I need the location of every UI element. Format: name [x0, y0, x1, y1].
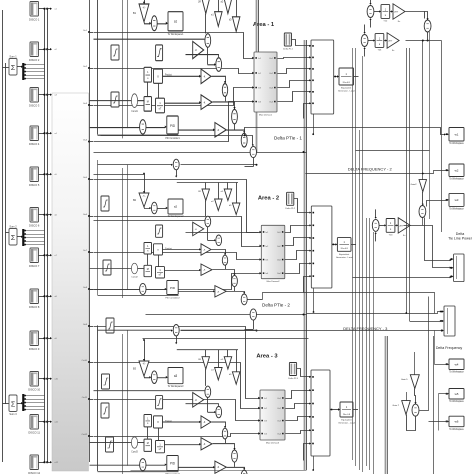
wire bus branch Ou12: [88, 435, 90, 437]
wire governor row Area-1: [163, 75, 201, 77]
wire cond link Area-1: [90, 100, 132, 102]
wire drop into cluster2 Area-3: [218, 350, 220, 368]
svg-text:Tie Line Power: Tie Line Power: [448, 237, 473, 241]
svg-text:2ΠT: 2ΠT: [399, 225, 404, 227]
subsystem group Area-3 internals: [90, 324, 258, 474]
source block DISCO 1: [30, 2, 39, 17]
wire Gt1 to sum right1: [212, 76, 226, 82]
svg-text:Ou3: Ou3: [277, 260, 281, 262]
svg-text:DELTA FREQUENCY - 2: DELTA FREQUENCY - 2: [348, 166, 393, 171]
svg-text:Ou2: Ou2: [269, 73, 273, 75]
wire pid row Area-1: [178, 129, 214, 131]
wire pid sum to controller: [146, 289, 165, 291]
sum block right2 Area-3: [232, 450, 238, 462]
wire plant 1 to equivalent generator: [334, 76, 338, 78]
wire Sum 2 output to fanout bar: [17, 236, 22, 238]
wire ACE sum to workspace: [157, 23, 166, 25]
svg-text:Ou1: Ou1: [269, 58, 273, 60]
wire into To Workspace9: [447, 420, 449, 422]
scope block To Workspace7 (w4): [449, 359, 464, 370]
bus band (tall gray gradient region): [52, 93, 89, 471]
gain block cluster1 Area-3: [202, 357, 210, 369]
wire pid sum to controller: [146, 464, 165, 466]
load block Delta PL2: [287, 192, 294, 205]
mux3 output port 1: [282, 397, 284, 399]
sum block tie T12: [367, 6, 374, 18]
PID controller block Area-2: [167, 281, 178, 295]
sum block Delta PTie-2: [250, 309, 256, 320]
svg-text:To Workspace: To Workspace: [449, 142, 464, 145]
wire cluster sum to right0 Area-1: [207, 47, 209, 64]
svg-text:To Workspace3: To Workspace3: [168, 385, 184, 388]
source block DISCO 3: [30, 88, 39, 103]
gain block cluster2 Area-1: [215, 12, 223, 27]
condition oval Cond2: [131, 263, 137, 274]
svg-text:1/R: 1/R: [198, 2, 201, 4]
svg-text:w1: w1: [455, 132, 459, 136]
svg-text:Ou11: Ou11: [82, 397, 88, 399]
wire tie chain T12: [374, 11, 380, 13]
svg-text:Equivalent: Equivalent: [341, 87, 352, 90]
limiter block under ACE Area-1: [156, 45, 163, 61]
svg-text:w4: w4: [455, 362, 459, 366]
sum block tie T13: [372, 219, 379, 231]
wire Delta PL3 to plant: [297, 369, 311, 377]
wire Delta PTie-1 band: [94, 152, 251, 154]
wire Gt2 to sum right2: [213, 444, 235, 449]
svg-text:Ou2: Ou2: [277, 408, 281, 410]
gain block Gt1 Area-3: [201, 416, 211, 428]
integrator block tie T12: [381, 5, 390, 19]
gain block Gt3 Area-3: [215, 461, 226, 473]
svg-text:To Workspace: To Workspace: [449, 428, 464, 431]
sum block right2 Area-1: [232, 109, 238, 123]
wire ACE sum to workspace: [157, 208, 166, 210]
wire tie T23 top input: [364, 25, 366, 34]
wire ws4 input: [435, 364, 449, 366]
svg-text:-K: -K: [203, 101, 205, 104]
svg-text:Ou10: Ou10: [82, 360, 88, 362]
wire tie3 out to tie mux port2: [404, 226, 451, 268]
wire tie chain T23: [368, 40, 374, 42]
gain block Gt3 Area-2: [215, 286, 226, 297]
wire DISCO 12 output: [39, 462, 45, 464]
svg-text:PID: PID: [170, 286, 176, 290]
svg-text:DISCO 1: DISCO 1: [29, 18, 40, 22]
limiter block under ACE Area-2: [156, 225, 163, 237]
svg-text:2ΠT: 2ΠT: [394, 12, 399, 14]
sum block bottom right: [412, 404, 419, 416]
svg-text:a2: a2: [174, 205, 178, 209]
transfer block governor Area-2: [144, 243, 152, 255]
source block DISCO 2: [30, 42, 39, 57]
wire far-left rail 1: [2, 10, 4, 462]
limiter block under ACE Area-3: [156, 396, 163, 409]
wire turbine row Area-3: [165, 444, 201, 446]
svg-text:Sum 1: Sum 1: [9, 55, 17, 58]
sum block tie combine top: [424, 20, 431, 32]
wire frame area2-3 boundary: [143, 338, 309, 340]
sum block cluster Area-3: [205, 386, 211, 397]
transfer block governor Area-1: [144, 67, 152, 82]
wire cluster sum to right0 Area-2: [207, 227, 209, 241]
sum block right1 Area-3: [222, 428, 227, 439]
svg-text:Delta: Delta: [456, 232, 464, 236]
wire sum right2 down: [234, 287, 236, 291]
svg-text:In2: In2: [258, 73, 261, 75]
mux2 output port 2: [282, 245, 284, 247]
svg-text:Cond3: Cond3: [131, 451, 138, 453]
wire into To Workspace6: [447, 199, 449, 201]
wire drop into cluster2 Area-2: [218, 183, 220, 200]
wire DISCO 6 output: [39, 214, 45, 216]
gain block Gt2 Area-2: [201, 264, 212, 275]
mux3 output port 3: [282, 420, 284, 422]
wire into B3: [144, 340, 146, 360]
PID controller block Area-1: [167, 116, 178, 134]
mux2 input port 4: [260, 272, 262, 274]
gain block Gt2 Area-3: [201, 438, 212, 450]
sum block tie input Area-2: [173, 159, 179, 170]
mux2 input port 2: [260, 245, 262, 247]
wire plant 2 frequency drop: [313, 288, 315, 312]
wire bus branch Ou5: [88, 178, 90, 180]
svg-text:In1: In1: [258, 58, 261, 60]
mux1 input port 3: [252, 86, 254, 88]
svg-text:Generator - Load: Generator - Load: [338, 422, 355, 425]
wire cluster top header Area-2: [177, 182, 238, 184]
wire PID1 output to PTie-1 sum: [101, 136, 253, 146]
wire bus branch Ou3: [88, 104, 90, 106]
gain block governor amp Area-2: [193, 222, 204, 236]
wire delta frequency 3 band: [181, 330, 443, 332]
mux1 output port 2: [274, 72, 276, 74]
transfer block reheat Area-2: [156, 267, 165, 278]
wire pid sum feed Area-1: [90, 127, 140, 129]
mux block Mux Demux2: [261, 225, 285, 278]
mux3 input port 3: [258, 419, 260, 421]
wire into B2: [144, 174, 146, 193]
wire feedback bottom Area-1: [98, 134, 179, 136]
wire generator 2 output: [351, 244, 356, 246]
summer block Sum 1: [9, 59, 17, 76]
wire drop into cluster1 Area-3: [205, 350, 207, 357]
svg-text:Generator - Load: Generator - Load: [336, 256, 353, 259]
source block DISCO 12: [30, 455, 39, 470]
wire feedback rail2 Area-3: [122, 334, 124, 474]
wire right0 feed Area-1: [186, 55, 219, 58]
sum block right0 Area-3: [216, 406, 222, 417]
gain block cluster1 Area-2: [202, 189, 210, 201]
wire tie mux port3 feed: [353, 277, 451, 279]
wire bottom into plant 3: [304, 444, 311, 461]
scope block To Workspace3 (ACE): [168, 367, 183, 383]
wire ws3 feed: [427, 201, 447, 207]
wire feedback rail2 Area-1: [122, 0, 124, 138]
mux2 input port 3: [260, 258, 262, 260]
mux1 input port 1: [252, 57, 254, 59]
svg-text:a1: a1: [174, 19, 177, 23]
sum block right3 Area-2: [241, 294, 247, 305]
gain block cluster1 Area-1: [202, 0, 210, 14]
scope block To Workspace9 (w6): [449, 416, 464, 427]
svg-text:-K-: -K-: [143, 6, 146, 9]
sum block right0 Area-1: [216, 58, 222, 72]
mux2 output port 1: [282, 231, 284, 233]
limiter block near bus: [106, 318, 114, 333]
summer block Sum 3: [9, 395, 17, 412]
svg-text:In3: In3: [266, 260, 269, 262]
gain block Gt1 Area-2: [201, 244, 211, 255]
svg-text:DISCO 8: DISCO 8: [29, 305, 40, 309]
wire DISCO 4 output: [39, 133, 45, 135]
svg-text:M: M: [147, 442, 149, 445]
mux1 output port 4: [274, 101, 276, 103]
mux block Delta Frequency output: [444, 306, 455, 336]
wires mux1 outputs to plant: [278, 58, 311, 59]
wire tie T23 bottom input: [364, 48, 366, 57]
svg-text:Delta PTie - 2: Delta PTie - 2: [262, 303, 290, 308]
wire sum right output to tie mux port1: [425, 218, 451, 261]
wire DISCO 11 output: [39, 421, 45, 423]
transfer block turbine Area-2: [144, 265, 152, 276]
wire drop into cluster1 Area-2: [205, 183, 207, 190]
wire into To Workspace8: [447, 393, 449, 395]
wire cluster sum drop: [205, 369, 207, 386]
wire governor row Area-2: [163, 249, 201, 251]
wire sum right2 down: [234, 124, 236, 130]
wire right rail bundle: [352, 48, 354, 460]
wire tie T12 out: [406, 12, 425, 19]
wire tie sum feed Area-3: [98, 329, 172, 331]
gain block cluster3 Area-3: [224, 357, 232, 369]
wire DISCO 9 output: [39, 338, 45, 340]
source block DISCO 9: [30, 331, 39, 346]
svg-text:DISCO 3: DISCO 3: [29, 104, 40, 108]
equivalent generator block Area 1: [339, 68, 354, 85]
wire bottom into plant 2: [304, 277, 311, 293]
wires mux3 outputs to plant: [286, 391, 311, 399]
limiter block near bus: [101, 403, 109, 418]
wire gov drop Area-3: [147, 427, 149, 439]
wires mux2 outputs to plant: [285, 226, 311, 233]
svg-text:aD: aD: [221, 2, 224, 4]
svg-text:DISCO 6: DISCO 6: [29, 224, 40, 228]
wire bus branch Ou6: [88, 215, 90, 217]
wire feedback rail1 Area-2: [97, 160, 99, 295]
wire tie sum out right Area-3: [181, 329, 257, 331]
gain block Gain5: [410, 375, 419, 389]
wire drop into cluster3 Area-3: [227, 350, 229, 357]
limiter block near bus: [106, 437, 114, 452]
condition oval Cond1: [131, 94, 137, 108]
wire B3 to ACE sum: [145, 377, 151, 378]
wire plant 2 to equivalent generator: [332, 244, 336, 246]
svg-text:x: x: [157, 74, 159, 78]
wire gov drop Area-1: [147, 82, 149, 96]
svg-text:PID Controller2: PID Controller2: [165, 297, 180, 300]
wire bus branch Ou11: [88, 398, 90, 400]
gain block cluster3 Area-2: [224, 189, 232, 201]
wire bus branch Ou4: [88, 141, 90, 143]
mux3 input port 4: [258, 432, 260, 434]
wire DISCO 5 output: [39, 174, 45, 176]
wire right rail pair mid: [406, 48, 408, 313]
product block governor Area-1: [154, 69, 163, 83]
gain block governor amp Area-3: [193, 393, 204, 408]
svg-text:To Workspace: To Workspace: [449, 371, 464, 374]
mux3 input port 2: [258, 407, 260, 409]
wire bottom right verticals: [433, 336, 435, 474]
svg-text:DISCO 7: DISCO 7: [29, 264, 40, 268]
svg-text:DELTA FREQUENCY - 3: DELTA FREQUENCY - 3: [343, 326, 388, 331]
wire Delta PTie-2 sum drop: [253, 320, 255, 329]
wire Gt1 to sum right1: [212, 422, 226, 427]
wire main left bus vertical: [89, 0, 91, 462]
svg-text:Delta PL3: Delta PL3: [288, 377, 298, 380]
wire DISCO 10 output: [39, 378, 45, 380]
plant block Area 2 generator group: [311, 206, 332, 288]
gain block tie T12: [393, 4, 405, 19]
scope block To Workspace2 (ACE): [168, 199, 183, 214]
svg-text:-K: -K: [217, 129, 219, 132]
svg-text:-K-: -K-: [143, 364, 146, 366]
wire gain5 chain: [414, 352, 416, 375]
gain block cluster2 Area-3: [215, 367, 223, 379]
svg-text:Area - 3: Area - 3: [256, 354, 278, 360]
svg-text:Delta PL1: Delta PL1: [283, 48, 293, 51]
fanout bus bar of Sum 3: [22, 394, 24, 411]
wire sum bottom out: [420, 297, 429, 411]
wire row mid Area-1: [94, 38, 205, 40]
wire pid row Area-3: [178, 466, 214, 468]
wire drop into cluster2 Area-1: [218, 0, 220, 12]
svg-text:w5: w5: [455, 392, 459, 396]
svg-text:In1: In1: [264, 398, 267, 400]
plant block Area 1 generator group: [311, 40, 334, 114]
gain block Gain2: [419, 180, 427, 192]
wire Sum 3 output to fanout bar: [17, 403, 22, 405]
mux1 input port 4: [252, 100, 254, 102]
product block governor Area-3: [154, 416, 163, 428]
svg-text:Delta PTie - 1: Delta PTie - 1: [274, 136, 302, 141]
mux block Delta Tie Line Power output: [454, 254, 464, 282]
wire prod drop Area-3: [158, 428, 160, 441]
svg-text:1/R: 1/R: [198, 191, 202, 193]
equivalent generator block Area 3: [340, 402, 353, 417]
source block DISCO 6: [30, 208, 39, 223]
source block DISCO 7: [30, 248, 39, 263]
wire right rail to tie3: [429, 32, 431, 219]
sum block cluster Area-1: [205, 34, 211, 48]
svg-text:Ou4: Ou4: [277, 273, 281, 275]
sum block right2 Area-2: [232, 275, 238, 286]
svg-text:Σ: Σ: [11, 65, 16, 72]
transfer block reheat Area-1: [156, 98, 165, 113]
wire right0 feed Area-2: [186, 232, 259, 234]
wire tie sum out right Area-2: [181, 164, 257, 166]
wire Gain2 chain: [422, 41, 424, 180]
wire bus branch Ou7: [88, 251, 90, 253]
mux3 output port 2: [282, 407, 284, 409]
svg-text:Sum 3: Sum 3: [9, 413, 17, 416]
wire row mid Area-2: [94, 220, 205, 222]
limiter block near bus: [103, 260, 111, 275]
svg-text:To Workspace: To Workspace: [449, 178, 464, 181]
wire far-left rail 2: [5, 63, 7, 404]
transfer block reheat Area-3: [156, 440, 165, 452]
limiter block near bus: [102, 374, 110, 389]
svg-text:20s+0.8: 20s+0.8: [343, 414, 351, 416]
gain block Gt1 Area-1: [201, 69, 211, 84]
svg-text:Equivalent: Equivalent: [339, 253, 350, 256]
gain block cluster3 Area-1: [224, 0, 232, 14]
gain block cluster4 Area-1: [232, 17, 240, 32]
wire Delta PTie-1 upper corner: [245, 128, 445, 136]
gain block tie T13: [398, 218, 410, 233]
wire Gt3 out: [227, 467, 245, 468]
mux2 input port 1: [260, 231, 262, 233]
wire B2 to ACE sum: [145, 208, 151, 209]
svg-text:Equivalent: Equivalent: [341, 419, 352, 422]
wire drop into cluster4 Area-1: [236, 0, 238, 17]
wire plant 3 frequency drop: [313, 456, 315, 470]
wire bottom frame: [131, 470, 307, 472]
svg-text:B1: B1: [133, 11, 136, 15]
sum block PID input Area-3: [140, 459, 146, 471]
wire feedback rail1 Area-3: [97, 325, 99, 471]
load block Delta PL3: [289, 363, 296, 376]
product block governor Area-2: [154, 244, 163, 255]
svg-text:Ou4: Ou4: [269, 102, 273, 104]
wire prod drop Area-2: [158, 255, 160, 267]
svg-text:PID: PID: [170, 462, 176, 466]
svg-text:w2: w2: [455, 168, 459, 172]
equivalent generator block Area 2: [337, 238, 351, 252]
svg-text:To Workspace: To Workspace: [449, 400, 464, 403]
sum block right1 Area-1: [222, 84, 227, 97]
wire disco vertical rail B: [47, 8, 49, 462]
scope block To Workspace1 (ACE): [168, 12, 183, 31]
gain block B2 (frequency bias): [139, 193, 149, 207]
svg-text:Gain 7: Gain 7: [393, 405, 400, 407]
svg-text:To Workspace: To Workspace: [449, 208, 464, 211]
wire B1 to ACE sum: [145, 23, 151, 24]
svg-text:-K-: -K-: [143, 195, 146, 197]
wire Gt1 to sum right1: [212, 250, 226, 255]
wire gov drop Area-2: [147, 254, 149, 265]
svg-text:sT: sT: [159, 448, 162, 451]
condition oval Cond3: [131, 437, 137, 448]
limiter block near bus: [111, 45, 119, 60]
gain block cluster4 Area-2: [232, 203, 240, 215]
svg-text:Ou4: Ou4: [277, 434, 281, 436]
wire Gt3 out: [227, 130, 245, 131]
svg-text:M: M: [147, 268, 149, 271]
svg-text:Mux Demux2: Mux Demux2: [267, 281, 281, 283]
svg-text:Ou3: Ou3: [269, 88, 273, 90]
wire routing branches to Area-1 mux: [94, 33, 253, 59]
mux3 input port 1: [258, 397, 260, 399]
wire tie T23 out: [406, 40, 442, 42]
wire plant 3 to equivalent generator: [330, 409, 339, 411]
svg-text:Ou12: Ou12: [82, 434, 88, 436]
wire feedback rail3 Area-1: [127, 0, 129, 128]
gain block B1 (frequency bias): [139, 4, 149, 22]
wire tie feedback band right: [356, 150, 430, 152]
svg-text:In3: In3: [258, 88, 261, 90]
mux block Mux Demux3: [260, 390, 285, 440]
